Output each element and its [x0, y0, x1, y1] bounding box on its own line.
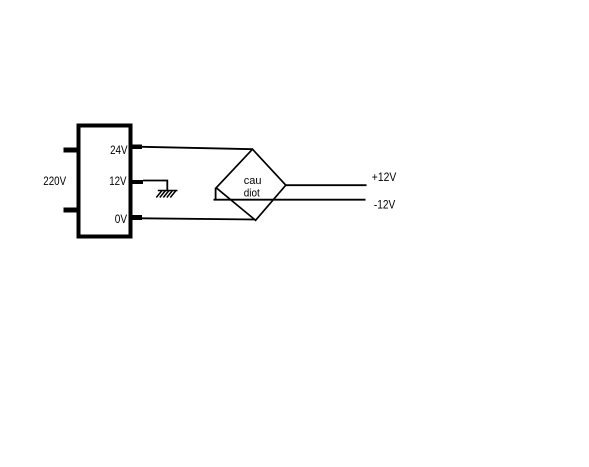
svg-text:12V: 12V [109, 174, 126, 188]
svg-text:0V: 0V [115, 212, 127, 226]
wire 0V to bridge bottom [142, 218, 255, 219]
terminal: secondary 12V stub [130, 180, 143, 184]
diode bridge D1 (cau diot) [216, 149, 286, 220]
svg-text:220V: 220V [43, 174, 66, 188]
terminal: primary lower stub [64, 208, 78, 213]
terminal: secondary 0V stub [130, 215, 142, 220]
svg-text:+12V: +12V [372, 170, 397, 184]
wire -12V output [214, 199, 366, 201]
transformer T1 (220V primary, 24V/12V/0V secondary) [79, 126, 131, 237]
svg-text:cau: cau [244, 175, 262, 187]
terminal: secondary 24V stub [131, 145, 142, 150]
svg-text:24V: 24V [110, 143, 127, 157]
wire bridge left vertex down [215, 188, 217, 200]
svg-text:-12V: -12V [374, 197, 395, 211]
ground [156, 191, 177, 198]
terminal: primary upper stub [64, 148, 78, 153]
wire +12V output [286, 184, 367, 186]
wire 24V to bridge top [142, 147, 253, 149]
svg-text:diot: diot [244, 188, 260, 200]
wire 12V to ground [143, 181, 167, 191]
